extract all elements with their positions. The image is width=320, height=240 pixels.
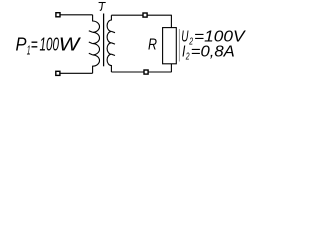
svg-text:=: = xyxy=(31,34,38,55)
svg-text:2: 2 xyxy=(185,52,190,63)
svg-text:P: P xyxy=(16,34,28,55)
svg-text:W: W xyxy=(59,34,81,55)
svg-text:100: 100 xyxy=(40,34,60,55)
svg-text:=0,8A: =0,8A xyxy=(191,43,235,60)
svg-text:R: R xyxy=(148,37,157,54)
